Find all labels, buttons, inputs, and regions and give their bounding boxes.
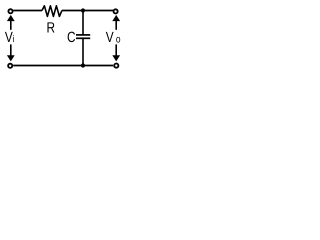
arrow up Vo [115, 21, 117, 30]
arrow down Vi [10, 44, 12, 55]
terminal top-right [114, 9, 118, 13]
resistor R [42, 6, 62, 17]
wire top rail right [62, 10, 113, 12]
wire top rail left [13, 10, 42, 12]
svg-text:C: C [67, 30, 76, 46]
node junction top [81, 8, 85, 12]
wire bottom rail [13, 65, 113, 67]
terminal bottom-right [114, 64, 118, 68]
terminal bottom-left [8, 64, 12, 68]
node junction bottom [81, 63, 85, 67]
arrow down Vo [115, 44, 117, 55]
terminal top-left [8, 9, 12, 13]
svg-text:R: R [47, 20, 56, 36]
capacitor C [82, 11, 84, 35]
arrow up Vi [10, 21, 12, 30]
